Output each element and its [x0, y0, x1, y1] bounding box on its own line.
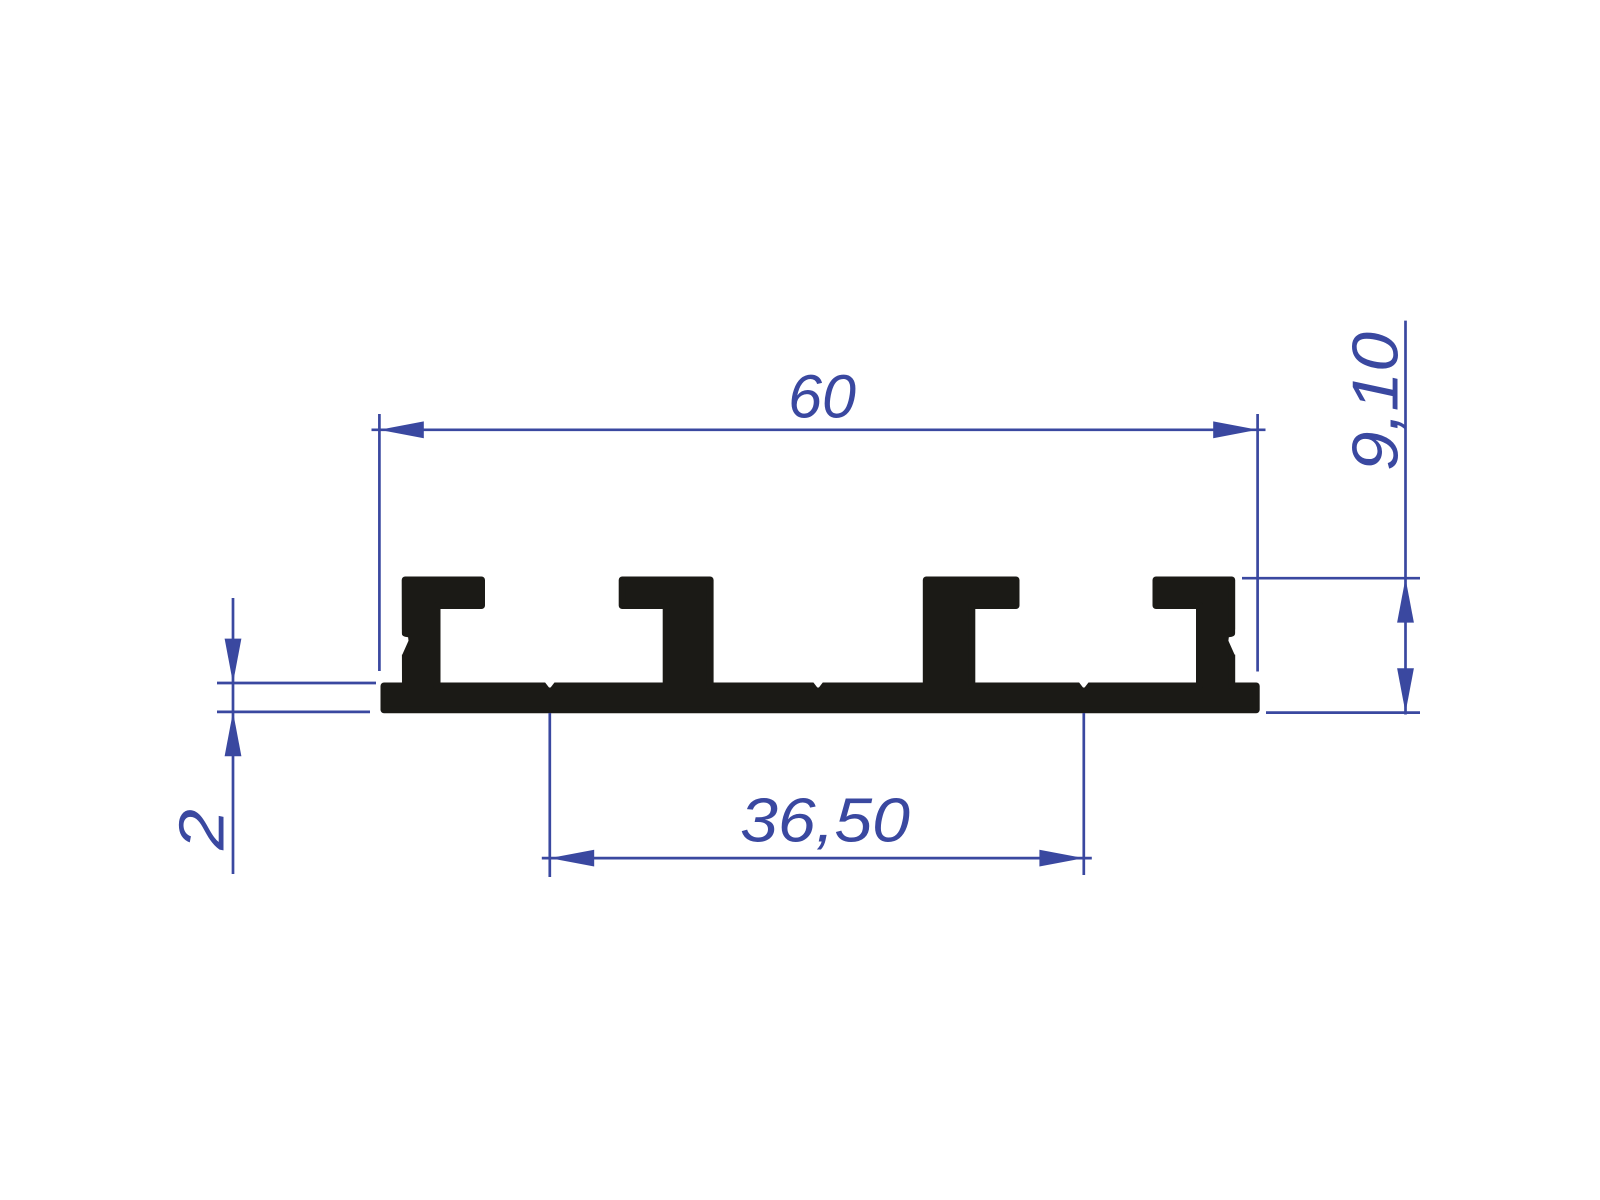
dimension 2: arrowhead up (below) — [225, 712, 242, 756]
dimension 2: extension line bottom — [217, 711, 370, 714]
dimension 36,50: dimension line — [542, 857, 1092, 860]
dimension 2: extension line top — [217, 682, 376, 685]
extrusion profile cross-section body — [384, 580, 1256, 710]
V mark notch 1 on base top — [544, 681, 556, 688]
dimension 36,50: extension line left — [548, 713, 551, 877]
dimension 60: extension line left — [378, 414, 381, 671]
left stem edge notch — [395, 630, 409, 656]
dimension 9,10: arrowhead up — [1397, 578, 1414, 622]
dimension 60: dimension line — [372, 428, 1266, 431]
svg-text:60: 60 — [788, 363, 856, 431]
dimension 60: arrowhead left — [379, 421, 423, 438]
dimension 9,10: arrowhead down — [1397, 668, 1414, 712]
svg-text:36,50: 36,50 — [740, 785, 910, 855]
dimension 60: arrowhead right — [1213, 421, 1257, 438]
svg-text:2: 2 — [166, 809, 237, 851]
dimension 36,50: extension line right — [1082, 713, 1085, 875]
dimension 60: extension line right — [1256, 414, 1259, 672]
dimension 9,10: extension line bottom — [1266, 711, 1420, 714]
dimension 36,50: arrowhead left — [550, 850, 594, 867]
dimension 2: dimension line — [232, 598, 235, 874]
dimension 9,10: dimension line — [1404, 321, 1407, 715]
dimension 2: arrowhead down (above) — [225, 639, 242, 683]
svg-text:9,10: 9,10 — [1339, 332, 1411, 471]
dimension 36,50: arrowhead right — [1039, 850, 1083, 867]
V mark notch 2 on base top — [812, 681, 824, 688]
V mark notch 3 on base top — [1078, 681, 1090, 688]
right stem edge notch — [1228, 630, 1242, 656]
dimension 9,10: extension line top — [1242, 577, 1420, 580]
